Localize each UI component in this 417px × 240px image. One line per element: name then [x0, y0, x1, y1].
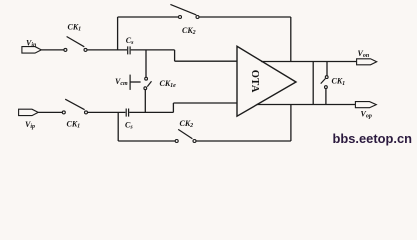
wire op-amp output top to Von [261, 61, 357, 63]
wire top rail down to output [290, 17, 292, 62]
switch CK1 (top input) arm [67, 37, 85, 47]
capacitor Cs (bottom) right plate [128, 109, 130, 117]
switch CK1 (top input) contact right [84, 48, 87, 51]
switch CK2 (bottom) contact right [193, 140, 196, 143]
svg-text:OTA: OTA [249, 70, 260, 93]
wire jog up to op-amp input (bottom) [172, 103, 174, 112]
wire bottom rail left [118, 140, 175, 142]
wire Vip to switch CK1 bottom [38, 111, 62, 113]
wire node A up to top rail [117, 17, 119, 50]
svg-text:Cs: Cs [126, 36, 134, 46]
wire bottom rail up to output [290, 105, 292, 142]
svg-text:CK1: CK1 [68, 22, 82, 32]
switch CK2 (top) contact left [179, 16, 182, 19]
op-amp U1 OTA triangle [237, 46, 296, 116]
svg-text:Vip: Vip [25, 120, 35, 130]
wire top rail right [199, 16, 291, 18]
wire Vcm to switch CK1e [130, 81, 141, 83]
wire stub from switch CK1 (output) bottom [325, 89, 327, 105]
output terminal Von [357, 59, 377, 65]
svg-text:Von: Von [358, 49, 370, 59]
wire to op-amp non-inverting input [173, 102, 237, 104]
svg-text:CK1e: CK1e [160, 79, 177, 89]
wire switch CK1 to capacitor Cs bottom [88, 111, 126, 113]
wire node B down to bottom rail [117, 112, 119, 141]
svg-text:CK2: CK2 [182, 26, 196, 36]
switch CK1 (output) contact top [325, 76, 328, 79]
input terminal Vin [22, 47, 41, 54]
svg-text:bbs.eetop.cn: bbs.eetop.cn [333, 132, 413, 146]
wire Vin to switch CK1 [41, 49, 64, 51]
wire capacitor Cs top to summing node [131, 49, 175, 51]
switch CK2 (top) arm [170, 4, 196, 15]
switch CK2 (bottom) arm [178, 129, 192, 138]
switch CK2 (bottom) contact left [175, 140, 178, 143]
switch CK1e contact bottom [144, 87, 147, 90]
wire op-amp output bottom to Vop [257, 104, 356, 106]
switch CK1e contact top [145, 77, 148, 80]
wire stub to switch CK1 (output) top [326, 62, 328, 76]
switch CK2 (top) contact right [196, 16, 199, 19]
wire vertical connector between outputs [312, 62, 314, 105]
capacitor Cs (bottom) left plate [125, 109, 127, 117]
wire jog down to op-amp input (top) [174, 50, 176, 61]
svg-text:CK1: CK1 [67, 119, 81, 129]
svg-text:Cs: Cs [125, 121, 133, 131]
svg-text:CK2: CK2 [180, 119, 194, 129]
wire top rail left [118, 16, 179, 18]
svg-text:Vop: Vop [361, 109, 372, 119]
input terminal Vip [19, 109, 39, 115]
capacitor Cs (top) left plate [127, 46, 129, 54]
switch CK1 (bottom input) arm [65, 99, 84, 110]
wire branch down to switch CK1e [145, 50, 147, 77]
switch CK1 (output) contact bottom [325, 86, 328, 89]
wire capacitor Cs bottom to summing node [129, 111, 173, 113]
svg-text:CK1: CK1 [332, 77, 346, 87]
wire switch CK1e down to bottom node [144, 90, 146, 113]
svg-text:Vin: Vin [26, 38, 37, 48]
wire to op-amp inverting input [175, 60, 237, 62]
capacitor Cs (top) right plate [129, 46, 131, 54]
switch CK1 (top input) contact left [64, 48, 67, 51]
switch CK1e arm [147, 81, 151, 86]
output terminal Vop [355, 102, 376, 108]
svg-text:Vcm: Vcm [115, 77, 128, 87]
wire bottom rail right [196, 140, 291, 142]
switch CK1 (bottom input) contact left [62, 111, 65, 114]
switch CK1 (output) arm [321, 79, 326, 84]
wire switch CK1 to capacitor Cs top [87, 49, 127, 51]
Vcm terminal bar [129, 75, 131, 90]
switch CK1 (bottom input) contact right [85, 111, 88, 114]
